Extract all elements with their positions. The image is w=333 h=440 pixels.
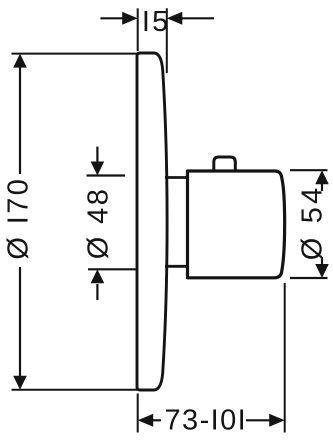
- dim 15: left extension line: [137, 8, 139, 51]
- dim O48: top arrow (points down): [91, 162, 105, 176]
- dim 73-101: right arrow (points right): [269, 414, 285, 427]
- dim 73-101: left line segment: [152, 419, 161, 421]
- dim O54: lower stub line: [321, 257, 323, 264]
- dim O170: lower dimension line: [19, 267, 21, 378]
- dim 73-101: left arrow (points left): [138, 414, 154, 427]
- dim 73-101: right line segment: [246, 419, 270, 421]
- dim O48: bottom arrow (points up): [91, 269, 105, 283]
- dim O48: lower leader line: [96, 284, 98, 300]
- dim O48: bottom tick: [88, 268, 138, 270]
- handle knob body: [188, 171, 285, 278]
- dim 73-101: left extension line: [137, 394, 139, 433]
- escutcheon plate (side view): [137, 53, 167, 390]
- dim O170: bottom arrow (points down): [13, 376, 27, 390]
- svg-text:Ø 48: Ø 48: [82, 187, 114, 259]
- dim O54: top tick: [290, 169, 328, 171]
- dim O54: bottom arrow (points down): [315, 264, 329, 278]
- dim 15: right extension line: [166, 8, 168, 73]
- dim O54: upper stub line: [321, 184, 323, 191]
- dim 15: right arrow (points left): [167, 12, 183, 25]
- dim O170: top extension line: [12, 53, 138, 55]
- dim O54: top arrow (points up): [315, 170, 329, 184]
- dim 15: left arrow (points right): [122, 12, 138, 25]
- dim O170: top arrow (points up): [13, 54, 27, 68]
- svg-text:I5: I5: [142, 6, 171, 38]
- dim 73-101: right extension line: [284, 283, 286, 433]
- dim 15: right leader line: [180, 17, 214, 19]
- dim O170: upper dimension line: [19, 66, 21, 174]
- stem (valve neck) bottom line: [165, 265, 188, 268]
- stem (valve neck) top line: [165, 176, 188, 179]
- dim 15: left leader line: [100, 17, 124, 19]
- dim O48: upper leader line: [96, 147, 98, 163]
- svg-text:Ø 54: Ø 54: [296, 185, 328, 261]
- svg-text:73-I0I: 73-I0I: [165, 405, 248, 437]
- dim O48: top tick: [87, 174, 126, 176]
- svg-text:Ø I70: Ø I70: [3, 177, 35, 260]
- dim O54: bottom tick: [290, 277, 328, 279]
- handle top bump: [214, 157, 236, 170]
- dim O170: bottom extension line: [12, 389, 138, 391]
